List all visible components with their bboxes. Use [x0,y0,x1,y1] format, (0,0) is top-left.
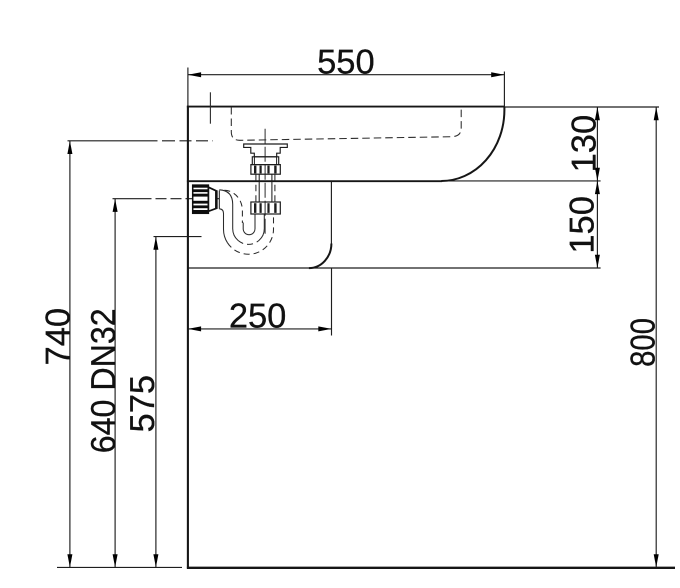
svg-text:150: 150 [564,196,602,254]
svg-text:740: 740 [40,308,78,366]
svg-text:800: 800 [624,318,662,367]
svg-text:250: 250 [229,297,287,335]
svg-text:575: 575 [124,375,162,433]
svg-text:640 DN32: 640 DN32 [85,308,123,453]
svg-text:130: 130 [565,115,603,173]
svg-text:550: 550 [317,44,375,82]
